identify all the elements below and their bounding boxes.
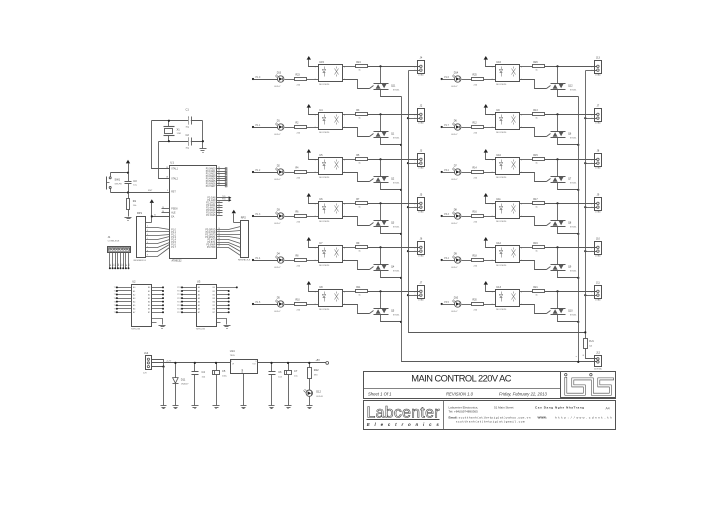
ground C6 xyxy=(269,405,275,407)
capacitor C3 xyxy=(125,181,132,183)
svg-text:1N4007: 1N4007 xyxy=(181,384,189,386)
ground C5 xyxy=(213,405,220,407)
svg-text:P1.7: P1.7 xyxy=(171,247,176,249)
svg-text:7805: 7805 xyxy=(230,355,236,357)
svg-text:1: 1 xyxy=(414,159,415,161)
triac Q6 BT131 xyxy=(551,131,566,133)
connector J7 xyxy=(418,286,425,299)
resistor R12 xyxy=(472,126,484,129)
svg-text:GND: GND xyxy=(242,368,244,373)
wire resistor to load connector xyxy=(545,247,597,249)
wire resistor to load connector xyxy=(545,66,597,68)
wire LED to resistor xyxy=(462,127,472,129)
diode D11 1N4007 xyxy=(175,363,177,406)
triac Q11 BT131 xyxy=(374,83,389,85)
svg-text:K1: K1 xyxy=(110,264,112,266)
svg-text:4: 4 xyxy=(147,234,148,236)
svg-text:C2: C2 xyxy=(186,133,190,137)
wire resistor to opto xyxy=(484,172,496,174)
node triac junction xyxy=(556,202,558,204)
svg-text:19: 19 xyxy=(166,167,168,169)
wire opto pin6 to resistor xyxy=(520,66,533,68)
svg-text:B2: B2 xyxy=(213,294,215,296)
node triac junction xyxy=(556,246,558,248)
svg-text:+5V: +5V xyxy=(316,359,321,362)
svg-text:R10: R10 xyxy=(296,299,301,301)
opto-coupler U10 MOC3020 xyxy=(496,158,520,175)
wire triac MT1 to bus xyxy=(558,315,579,322)
ground D12 xyxy=(307,405,313,407)
wire EA to VCC xyxy=(152,216,170,218)
wire junction to triac xyxy=(380,115,382,132)
svg-text:P2.1: P2.1 xyxy=(177,291,181,293)
ground D11 xyxy=(173,405,179,407)
svg-text:B1: B1 xyxy=(213,291,215,293)
node triac junction xyxy=(379,65,381,67)
wire +5V rail xyxy=(258,362,326,364)
wire triac MT1 to bus xyxy=(381,183,402,190)
svg-text:LOAD: LOAD xyxy=(595,167,601,170)
wire triac MT1 to bus xyxy=(381,138,402,145)
node connector bus junction xyxy=(407,250,409,252)
svg-text:U15: U15 xyxy=(319,61,324,64)
svg-text:C6: C6 xyxy=(278,370,282,374)
wire junction to triac xyxy=(380,67,382,84)
wire resistor to load connector xyxy=(368,203,420,205)
wire resistor to load connector xyxy=(368,159,420,161)
wire terminal to LED xyxy=(442,216,455,218)
wire connector pin2 to bus xyxy=(586,207,597,209)
svg-text:LOAD: LOAD xyxy=(418,167,424,170)
wire opto pin6 to resistor xyxy=(520,114,533,116)
svg-text:MOC3020: MOC3020 xyxy=(496,84,507,86)
wire resistor to opto xyxy=(484,260,496,262)
svg-text:RESPACK-8: RESPACK-8 xyxy=(134,259,147,262)
svg-text:P1.0: P1.0 xyxy=(256,77,261,79)
capacitor C2 xyxy=(188,138,190,146)
svg-text:J14: J14 xyxy=(144,351,149,355)
svg-text:BT131: BT131 xyxy=(393,183,400,185)
ground C4 xyxy=(192,405,199,407)
svg-text:LED-Y: LED-Y xyxy=(451,223,458,225)
wire triac MT1 to bus xyxy=(381,90,402,97)
svg-text:A4: A4 xyxy=(606,407,610,411)
svg-text:E l e c t r o n i c s: E l e c t r o n i c s xyxy=(367,422,440,427)
wire opto pin4 to triac gate xyxy=(343,261,370,270)
svg-text:LED-Y: LED-Y xyxy=(274,86,281,88)
ground crystal xyxy=(200,148,207,150)
wire power pins bracket xyxy=(152,360,164,367)
svg-text:1: 1 xyxy=(414,291,415,293)
svg-text:MOC3020: MOC3020 xyxy=(496,265,507,267)
svg-text:P3.3: P3.3 xyxy=(444,214,449,216)
logo ISIS box xyxy=(561,372,616,398)
wire connector pin2 to bus xyxy=(409,251,420,253)
svg-text:P1.5: P1.5 xyxy=(256,302,261,304)
wire junction to triac xyxy=(557,115,559,132)
wires RP1 to P1 port xyxy=(146,228,170,230)
svg-text:P2.6: P2.6 xyxy=(177,309,181,311)
wire connector pin2 to bus xyxy=(586,118,597,120)
power arrow opto xyxy=(484,281,488,285)
svg-text:P2.0: P2.0 xyxy=(177,287,181,289)
wire triac MT1 to bus xyxy=(381,227,402,234)
wire opto pin6 to resistor xyxy=(343,247,356,249)
triac Q12 BT131 xyxy=(551,83,566,85)
svg-text:LED-Y: LED-Y xyxy=(274,267,281,269)
svg-text:+12V: +12V xyxy=(166,360,172,362)
led D9 xyxy=(455,257,461,263)
svg-text:MOC3020: MOC3020 xyxy=(319,84,330,86)
node triac bus junction xyxy=(400,189,402,191)
wire triac MT1 to bus xyxy=(558,271,579,278)
node triac bus junction xyxy=(577,277,579,279)
wire opto pin4 to triac gate xyxy=(520,128,547,137)
wire terminal to LED xyxy=(442,79,455,81)
node triac junction xyxy=(379,158,381,160)
power arrow opto xyxy=(484,104,488,108)
wire LED to resistor xyxy=(285,304,295,306)
svg-text:A3: A3 xyxy=(133,297,135,300)
svg-text:ALE: ALE xyxy=(171,212,176,215)
wire LED to resistor xyxy=(462,304,472,306)
node triac bus junction xyxy=(400,233,402,235)
triac Q1 BT131 xyxy=(374,131,389,133)
connector J1 SIL-8 xyxy=(108,247,131,253)
svg-text:3: 3 xyxy=(255,361,256,363)
power arrow opto xyxy=(307,56,311,60)
connector J10 xyxy=(595,242,602,255)
wire right triac bus xyxy=(578,97,580,362)
svg-text:1: 1 xyxy=(591,291,592,293)
title block lower box xyxy=(364,401,616,430)
led D12 xyxy=(306,390,312,396)
connector J9 xyxy=(595,198,602,211)
svg-text:A6: A6 xyxy=(133,308,135,311)
svg-text:B5: B5 xyxy=(148,305,150,307)
triac Q4 BT131 xyxy=(374,264,389,266)
svg-text:P1.1: P1.1 xyxy=(256,125,261,127)
opto-coupler U5 MOC3020 xyxy=(319,158,343,175)
wire triac MT1 to bus xyxy=(558,227,579,234)
svg-text:K8: K8 xyxy=(128,264,130,266)
svg-text:32: 32 xyxy=(218,185,220,187)
svg-text:P1.7: P1.7 xyxy=(444,125,449,127)
svg-text:AT89C52: AT89C52 xyxy=(172,260,183,263)
svg-text:P2.7/A15: P2.7/A15 xyxy=(206,214,216,217)
crystal X1 xyxy=(165,129,173,134)
svg-text:B6: B6 xyxy=(148,309,150,311)
wire terminal to LED xyxy=(254,79,278,81)
title block main box xyxy=(364,372,616,399)
svg-text:LOAD: LOAD xyxy=(418,299,424,302)
ground power connector xyxy=(161,405,167,407)
wire opto pin4 to triac gate xyxy=(343,128,370,137)
wire junction to triac xyxy=(380,248,382,265)
resistor R11 xyxy=(356,290,368,293)
svg-text:C7: C7 xyxy=(294,369,298,373)
wire resistor to load connector xyxy=(545,114,597,116)
svg-text:C1: C1 xyxy=(186,108,190,112)
wire LED to resistor xyxy=(285,260,295,262)
svg-text:Q10: Q10 xyxy=(568,310,573,313)
svg-text:R15: R15 xyxy=(533,155,538,157)
svg-text:XTAL2: XTAL2 xyxy=(171,177,178,180)
svg-text:FU1: FU1 xyxy=(589,340,594,343)
svg-text:U16: U16 xyxy=(496,61,501,64)
wire +12V rail xyxy=(152,362,231,364)
connector J3 xyxy=(418,154,425,167)
wire opto pin4 to triac gate xyxy=(520,80,547,89)
resistor R3 xyxy=(356,113,368,116)
svg-text:B5: B5 xyxy=(213,305,215,307)
svg-text:Q11: Q11 xyxy=(391,85,396,88)
node triac junction xyxy=(379,202,381,204)
led D6 xyxy=(455,124,461,130)
opto-coupler U6 MOC3020 xyxy=(319,202,343,219)
resistor R15 xyxy=(533,158,545,161)
svg-text:T1: T1 xyxy=(114,287,116,289)
svg-text:K3: K3 xyxy=(115,264,117,266)
svg-text:T7: T7 xyxy=(114,309,116,311)
svg-text:R17: R17 xyxy=(533,199,538,201)
wire left triac bus xyxy=(402,97,597,362)
wire terminal to LED xyxy=(254,127,278,129)
connector J8 xyxy=(595,154,602,167)
svg-text:B0: B0 xyxy=(213,287,215,289)
wire junction to triac xyxy=(380,204,382,221)
wire triac MT1 to bus xyxy=(381,315,402,322)
svg-text:BT131: BT131 xyxy=(570,315,577,317)
node triac junction xyxy=(379,290,381,292)
svg-text:B4: B4 xyxy=(148,301,150,303)
wire resistor to load connector xyxy=(545,159,597,161)
svg-text:12V: 12V xyxy=(143,373,147,375)
svg-text:J13: J13 xyxy=(596,57,601,60)
svg-text:REVISION 1.0: REVISION 1.0 xyxy=(446,391,474,396)
led D10 xyxy=(455,301,461,307)
wire resistor to load connector xyxy=(368,114,420,116)
svg-text:P2.2: P2.2 xyxy=(177,294,181,296)
wire U3 enable to ground xyxy=(217,319,227,325)
wire opto pin6 to resistor xyxy=(343,203,356,205)
led D1 xyxy=(278,124,284,130)
wire connector pin2 to bus xyxy=(409,295,420,297)
wire junction to triac xyxy=(380,292,382,309)
wire LED to resistor xyxy=(285,79,295,81)
wire terminal to LED xyxy=(442,127,455,129)
wires U2 outputs xyxy=(152,287,164,289)
svg-text:1: 1 xyxy=(414,114,415,116)
power +5V arrow RP1 xyxy=(150,199,154,203)
svg-text:D14: D14 xyxy=(454,72,459,75)
ground C7 xyxy=(285,405,292,407)
svg-text:MOC3020: MOC3020 xyxy=(496,309,507,311)
wire resistor to opto xyxy=(307,172,319,174)
svg-text:1: 1 xyxy=(591,247,592,249)
svg-text:RP2: RP2 xyxy=(241,215,247,219)
wire terminal to LED xyxy=(254,216,278,218)
svg-text:P1.6: P1.6 xyxy=(444,77,449,79)
resistor R1 xyxy=(127,199,130,210)
triac Q10 BT131 xyxy=(551,308,566,310)
svg-text:Tel: +84(0)974890365: Tel: +84(0)974890365 xyxy=(449,409,479,413)
resistor R24 xyxy=(356,65,368,68)
svg-text:MOC3020: MOC3020 xyxy=(319,132,330,134)
svg-text:BT131: BT131 xyxy=(570,271,577,273)
svg-text:U1: U1 xyxy=(170,161,174,165)
node triac bus junction xyxy=(577,144,579,146)
svg-text:BT131: BT131 xyxy=(393,271,400,273)
wire crystal top xyxy=(168,121,170,127)
svg-text:LOAD: LOAD xyxy=(418,255,424,258)
svg-text:Sheet 1 Of 1: Sheet 1 Of 1 xyxy=(368,391,392,396)
wire LED to resistor xyxy=(285,216,295,218)
led D3 xyxy=(278,213,284,219)
triac Q5 BT131 xyxy=(374,308,389,310)
wire terminal to LED xyxy=(442,260,455,262)
wire junction to triac xyxy=(557,204,559,221)
node triac junction xyxy=(556,113,558,115)
wire resistor to load connector xyxy=(368,247,420,249)
resistor R14 xyxy=(472,171,484,174)
svg-text:LED-Y: LED-Y xyxy=(451,134,458,136)
svg-text:EA: EA xyxy=(171,215,175,218)
svg-text:LED-Y: LED-Y xyxy=(274,311,281,313)
svg-text:LOAD: LOAD xyxy=(595,255,601,258)
wire LED to resistor xyxy=(462,216,472,218)
resistor R8 xyxy=(295,259,307,262)
svg-text:LED-Y: LED-Y xyxy=(451,267,458,269)
svg-text:A4: A4 xyxy=(198,300,200,303)
wire connector pin2 to bus xyxy=(409,118,420,120)
switch SW1 xyxy=(110,173,112,177)
pins P0 stubs with pads xyxy=(217,168,227,170)
wire resistor to opto xyxy=(307,260,319,262)
wire XTAL1 to U1 xyxy=(152,121,170,169)
svg-text:BT131: BT131 xyxy=(393,90,400,92)
resistor R26 xyxy=(533,65,545,68)
svg-text:BT131: BT131 xyxy=(393,227,400,229)
wire opto pin4 to triac gate xyxy=(343,80,370,89)
opto-coupler U12 MOC3020 xyxy=(496,246,520,263)
connector J6 xyxy=(418,242,425,255)
node crystal-bottom junction xyxy=(168,140,170,142)
svg-text:LED-Y: LED-Y xyxy=(451,311,458,313)
connector J11 xyxy=(595,286,602,299)
capacitor C7 electrolytic xyxy=(288,363,290,371)
wire PSEN stub xyxy=(162,208,170,210)
svg-text:MOC3020: MOC3020 xyxy=(319,309,330,311)
connector J13 xyxy=(595,61,602,74)
resistor R2 xyxy=(295,126,307,129)
resistor R16 xyxy=(472,215,484,218)
svg-text:A2: A2 xyxy=(198,293,200,296)
opto-coupler U15 MOC3020 xyxy=(319,65,343,82)
svg-text:LOAD: LOAD xyxy=(418,122,424,125)
svg-text:BT131: BT131 xyxy=(393,315,400,317)
wire resistor to opto xyxy=(484,79,496,81)
wire connector pin2 to bus xyxy=(586,163,597,165)
power arrow opto xyxy=(484,149,488,153)
svg-text:2: 2 xyxy=(315,260,316,262)
svg-text:2: 2 xyxy=(147,226,148,228)
power +5V arrow above reset xyxy=(126,160,130,164)
svg-text:http://www.cdnnt.tk: http://www.cdnnt.tk xyxy=(555,415,612,419)
svg-text:SW1: SW1 xyxy=(115,177,121,181)
svg-text:scotthanh(at)betpig(at)yahoo.c: scotthanh(at)betpig(at)yahoo.com.vn xyxy=(459,415,531,419)
svg-text:U2: U2 xyxy=(132,279,136,283)
svg-text:P2.3: P2.3 xyxy=(177,298,181,300)
wire resistor to opto xyxy=(484,216,496,218)
svg-text:1: 1 xyxy=(414,66,415,68)
wire connector pin2 to bus xyxy=(586,70,597,72)
svg-text:LOAD: LOAD xyxy=(595,122,601,125)
svg-text:T3: T3 xyxy=(114,294,116,296)
svg-text:A7: A7 xyxy=(198,311,200,314)
connector J7 xyxy=(595,109,602,122)
wire resistor to opto xyxy=(307,79,319,81)
svg-text:A5: A5 xyxy=(198,304,200,307)
node connector bus junction xyxy=(584,294,586,296)
resistor R20 xyxy=(472,303,484,306)
wire resistor to load connector xyxy=(368,291,420,293)
svg-text:LED-Y: LED-Y xyxy=(274,223,281,225)
svg-text:C4: C4 xyxy=(202,370,206,374)
svg-text:B6: B6 xyxy=(213,309,215,311)
wire triac MT1 to bus xyxy=(558,90,579,97)
svg-text:R21: R21 xyxy=(533,287,538,289)
capacitor C5 electrolytic xyxy=(216,363,218,371)
wire fuse to J12 xyxy=(586,349,597,359)
svg-text:J12: J12 xyxy=(596,352,601,355)
node connector bus junction xyxy=(584,162,586,164)
node P1.2 terminal xyxy=(252,171,254,173)
wire XTAL bottom rail xyxy=(159,141,203,143)
svg-text:B2: B2 xyxy=(148,294,150,296)
svg-text:VO: VO xyxy=(252,363,255,365)
pins P2 stubs xyxy=(217,197,229,199)
svg-text:R13: R13 xyxy=(533,110,538,112)
wire terminal to LED xyxy=(254,172,278,174)
svg-text:D10: D10 xyxy=(454,297,459,300)
power arrow opto xyxy=(484,193,488,197)
svg-text:74HC245: 74HC245 xyxy=(131,329,141,331)
wire opto pin6 to resistor xyxy=(343,66,356,68)
resistor pack RP1 RESPACK-8 xyxy=(137,217,146,258)
svg-text:2: 2 xyxy=(492,260,493,262)
svg-text:1: 1 xyxy=(414,247,415,249)
svg-text:LOAD: LOAD xyxy=(595,74,601,77)
svg-text:K6: K6 xyxy=(123,264,125,266)
svg-text:LED-R: LED-R xyxy=(316,396,323,398)
triac Q3 BT131 xyxy=(374,220,389,222)
node triac junction xyxy=(556,158,558,160)
svg-text:220V AC: 220V AC xyxy=(594,368,603,371)
wire opto pin6 to resistor xyxy=(520,203,533,205)
svg-text:MAIN CONTROL 220V AC: MAIN CONTROL 220V AC xyxy=(411,374,511,384)
svg-text:18: 18 xyxy=(166,177,168,179)
svg-text:P2.4: P2.4 xyxy=(177,301,181,303)
svg-text:BT131: BT131 xyxy=(570,227,577,229)
wire opto pin4 to triac gate xyxy=(343,305,370,314)
wire XTAL2 to U1 xyxy=(159,142,170,179)
ground U2 xyxy=(159,325,166,327)
svg-text:LED-Y: LED-Y xyxy=(451,86,458,88)
wire opto pin4 to triac gate xyxy=(343,173,370,182)
svg-text:2: 2 xyxy=(315,304,316,306)
svg-text:P1.2: P1.2 xyxy=(256,170,261,172)
